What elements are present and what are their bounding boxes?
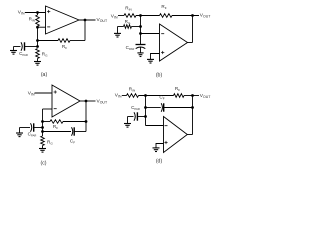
junction dots (c) [41,120,44,123]
wire input rail (d) [145,96,147,126]
svg-text:VIN: VIN [111,14,118,20]
wire input rail (c) [42,109,44,132]
svg-text:VIN: VIN [115,93,122,99]
capacitor CF (c) [72,127,73,135]
svg-text:CPAR: CPAR [28,132,37,138]
wire output (a) [79,19,96,21]
op-amp U1 (c) [52,85,80,117]
wire to inverting input (b) [141,33,160,35]
junction dots (d) [144,94,147,97]
wire RF to node2 (d) [184,95,199,97]
svg-text:VOUT: VOUT [200,13,211,19]
wire to inverting input (d) [146,125,164,127]
wire output (b) [188,42,193,44]
wire RG row (b) [132,26,141,28]
ground RG (c) [42,132,44,137]
wire inverting input (c) [43,108,53,110]
capacitor CPAR (d) [134,112,135,120]
resistor RG (b) [124,25,132,29]
wire cap to rail (d) [137,116,145,118]
svg-text:RF: RF [53,124,58,130]
capacitor CPAR (c) [31,123,32,131]
wire CF row (c) [43,131,72,133]
wire feedback bottom (a) [70,40,85,42]
resistor RIN (b) [124,14,136,18]
ground noninverting (d) [153,147,160,149]
svg-text:RG: RG [47,139,53,145]
wire output (d) [187,134,192,136]
svg-text:CPAR: CPAR [126,45,135,51]
op-amp U1 (b) [160,24,188,61]
resistor RF (c) [50,120,63,124]
wire Vin to noninverting (c) [35,92,53,94]
svg-text:(c): (c) [40,161,46,167]
wire output rail up (d) [192,96,194,135]
ground CPAR (d) [127,117,129,124]
wire CF row (d) [146,107,161,109]
resistor RIN (a) [36,15,40,26]
resistor RF (d) [174,94,185,98]
capacitor CF (d) [161,103,162,111]
ground CPAR (b) [140,47,142,53]
wire input rail (b) [140,16,142,45]
svg-text:VOUT: VOUT [200,93,211,99]
ground cap (a) [13,47,15,51]
ground RG (b) [117,27,119,34]
wire noninverting to ground (d) [156,144,164,148]
svg-text:RIN: RIN [125,6,131,12]
wire gnd to cap (d) [128,116,134,118]
ground CPAR (c) [19,128,21,134]
svg-text:RIN: RIN [129,87,135,93]
op-amp U1 (a) [46,6,80,34]
junction dots (b) [139,14,142,17]
wire Vin (d) [122,95,127,97]
resistor RIN (d) [127,94,139,98]
wire Vin (b) [118,15,124,17]
wire output rail down (c) [85,101,87,132]
svg-text:VIN: VIN [18,10,25,16]
resistor RF (b) [160,14,173,18]
wire to node1 (b) [136,15,160,17]
svg-text:CF: CF [70,138,75,144]
wire RF to node2 (b) [172,15,199,17]
wire output rail up (b) [192,16,194,43]
wire to node1 (d) [139,95,174,97]
svg-text:CPAR: CPAR [131,105,140,111]
svg-text:VIN: VIN [28,90,35,96]
wire output (c) [80,100,96,102]
wire RF row (c) [43,121,51,123]
svg-text:RF: RF [175,86,180,92]
svg-text:VOUT: VOUT [97,98,108,104]
svg-text:(d): (d) [156,159,163,165]
capacitor CPAR (b) [136,44,146,46]
wire input rail (a) [37,13,39,16]
svg-text:RF: RF [62,44,67,50]
svg-text:(a): (a) [41,72,48,78]
wire noninverting to ground (b) [151,54,160,60]
svg-text:RIN: RIN [29,17,35,23]
wire cap to rail (c) [34,127,43,129]
junction dots (a) [36,11,39,14]
resistor RF (a) [58,39,70,43]
wire Vin to node (a) [25,12,46,14]
capacitor CPAR (a) [21,42,22,50]
svg-text:CPAR: CPAR [19,51,28,57]
svg-text:VOUT: VOUT [97,17,108,23]
resistor RG (c) [41,136,45,146]
wire gnd to cap (c) [20,127,31,129]
wire cap to rail (a) [25,46,38,48]
wire feedback down (a) [84,20,86,41]
svg-text:RF: RF [161,4,166,10]
ground noninverting (b) [147,58,154,60]
ground RG (a) [37,59,39,62]
resistor RG (a) [36,49,40,59]
svg-text:(b): (b) [156,73,163,79]
svg-text:RG: RG [125,19,131,25]
svg-text:RG: RG [42,51,48,57]
wire gnd to cap (a) [14,46,21,48]
op-amp U1 (d) [164,117,188,153]
wire to inverting input (a) [38,26,46,28]
